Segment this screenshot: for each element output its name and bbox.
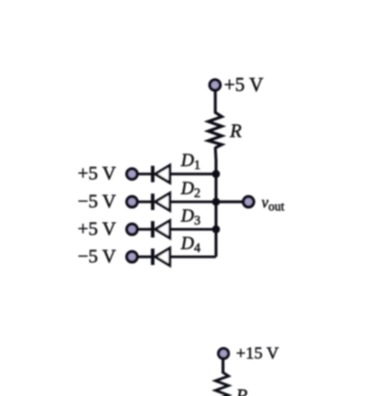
diode D3 bbox=[153, 221, 170, 238]
svg-text:D1: D1 bbox=[180, 150, 201, 172]
wire row1 terminal to diode D1 bbox=[138, 173, 152, 176]
svg-text:+5 V: +5 V bbox=[78, 164, 117, 185]
wire diode D1 to bus bbox=[170, 173, 216, 176]
wire output from node to terminal bbox=[216, 200, 244, 203]
wire row3 terminal to diode D3 bbox=[138, 228, 152, 231]
input terminal row3 +5V bbox=[127, 224, 137, 234]
wire diode D4 to bus bbox=[170, 255, 216, 258]
junction node row2 bbox=[212, 198, 220, 206]
svg-text:D3: D3 bbox=[180, 205, 201, 227]
input terminal row1 +5V bbox=[127, 169, 137, 179]
svg-text:+5 V: +5 V bbox=[224, 75, 263, 96]
svg-text:R: R bbox=[229, 121, 242, 142]
wire row4 terminal to diode D4 bbox=[138, 255, 152, 258]
junction node row1 bbox=[212, 170, 220, 178]
wire supply to resistor R bbox=[214, 91, 217, 114]
wire row2 terminal to diode D2 bbox=[138, 200, 152, 203]
svg-text:−5 V: −5 V bbox=[78, 246, 117, 267]
svg-text:vout: vout bbox=[262, 195, 285, 214]
terminal +5V supply (top) bbox=[210, 80, 220, 90]
resistor R bbox=[208, 113, 222, 148]
wire resistor to bus / vertical bus bbox=[214, 147, 218, 257]
terminal +15V supply (bottom) bbox=[219, 349, 229, 359]
svg-text:+15 V: +15 V bbox=[236, 344, 280, 363]
input terminal row4 -5V bbox=[127, 252, 137, 262]
input terminal row2 -5V bbox=[127, 197, 137, 207]
junction node row3 bbox=[212, 225, 220, 233]
diode D1 bbox=[153, 165, 170, 182]
svg-text:+5 V: +5 V bbox=[78, 219, 117, 240]
svg-text:−5 V: −5 V bbox=[78, 191, 117, 212]
svg-text:D2: D2 bbox=[180, 178, 201, 200]
wire +15V to resistor RB bbox=[222, 359, 225, 374]
diode D4 bbox=[153, 248, 170, 265]
output terminal vout bbox=[243, 197, 253, 207]
wire diode D2 to bus bbox=[170, 200, 216, 203]
svg-text:D4: D4 bbox=[180, 233, 201, 255]
wire diode D3 to bus bbox=[170, 228, 216, 231]
svg-text:R: R bbox=[235, 386, 248, 396]
diode D2 bbox=[153, 193, 170, 210]
resistor RB (partially visible) bbox=[216, 373, 229, 396]
